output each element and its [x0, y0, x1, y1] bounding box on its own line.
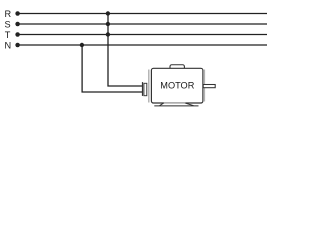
motor body shadow: [148, 70, 150, 103]
wire: neutral drop to motor: [82, 45, 143, 92]
wire: S phase bus: [18, 23, 268, 25]
wire: phase drop to motor: [108, 14, 143, 87]
svg-text:N: N: [5, 40, 12, 50]
wire: R phase bus: [18, 13, 268, 15]
wire: N neutral bus: [18, 44, 268, 46]
terminal dot T: [15, 32, 20, 37]
motor M1: [142, 65, 215, 106]
motor base right foot: [186, 103, 194, 106]
junction dot on N: [80, 43, 84, 47]
motor terminal bar: [142, 82, 143, 96]
svg-text:T: T: [5, 30, 11, 40]
wire: T phase bus: [18, 34, 268, 36]
motor top cap: [170, 65, 184, 71]
svg-text:R: R: [5, 9, 12, 19]
motor body: [151, 68, 203, 103]
junction dot on S: [106, 22, 110, 26]
terminal dot N: [15, 43, 20, 48]
junction dot on R: [106, 11, 110, 15]
svg-text:MOTOR: MOTOR: [160, 81, 194, 91]
motor base left foot: [160, 103, 164, 106]
terminal dot S: [15, 22, 20, 27]
motor base plate: [154, 105, 198, 107]
svg-text:S: S: [5, 19, 11, 29]
motor terminal box: [144, 83, 147, 95]
motor shaft: [203, 85, 215, 88]
terminal dot R: [15, 11, 20, 16]
junction dot on T: [106, 32, 110, 36]
motor base pedestal top: [164, 102, 185, 104]
